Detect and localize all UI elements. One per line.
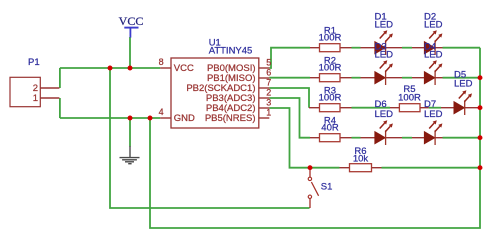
wire VCC symbol drop <box>129 37 131 68</box>
svg-text:LED: LED <box>375 49 394 60</box>
svg-text:VCC: VCC <box>174 63 194 74</box>
resistor R1 <box>319 25 342 51</box>
connector P1 <box>10 57 59 107</box>
junction VCC-S1 <box>108 66 113 71</box>
svg-text:100R: 100R <box>319 63 342 74</box>
svg-text:2: 2 <box>266 88 271 98</box>
wire row2 net PB1 <box>269 77 480 79</box>
junction S1 top <box>308 165 313 170</box>
op-amp U1 ATTINY45 IC <box>159 37 272 128</box>
wire VCC to S1 drop <box>110 68 310 208</box>
resistor R3 <box>319 85 342 111</box>
junction row3 rail <box>478 105 483 110</box>
svg-text:LED: LED <box>424 19 443 30</box>
svg-text:10k: 10k <box>353 153 369 164</box>
wire VCC net top horizontal <box>60 67 160 69</box>
LED D7 <box>424 99 443 145</box>
svg-text:4: 4 <box>159 107 164 117</box>
wire P1 pin1 riser <box>59 98 61 118</box>
svg-text:GND: GND <box>174 113 195 124</box>
LED D3 <box>375 41 394 85</box>
svg-text:100R: 100R <box>398 93 421 104</box>
VCC symbol <box>119 14 144 38</box>
svg-text:3: 3 <box>266 98 271 108</box>
svg-text:100R: 100R <box>319 33 342 44</box>
svg-text:LED: LED <box>424 49 443 60</box>
svg-text:ATTINY45: ATTINY45 <box>209 46 253 57</box>
switch S1 <box>308 168 332 208</box>
wire P1 pin2 riser <box>59 68 61 88</box>
svg-text:VCC: VCC <box>119 14 144 28</box>
svg-text:PB5(NRES): PB5(NRES) <box>205 113 256 124</box>
LED D6 <box>375 99 394 145</box>
svg-text:1: 1 <box>33 93 38 104</box>
junction ground symbol <box>128 116 133 121</box>
LED D1 <box>375 11 394 55</box>
svg-text:40R: 40R <box>321 123 339 134</box>
wire GND rail drop <box>150 48 480 228</box>
junction GND rail <box>148 116 153 121</box>
LED D4 <box>424 41 443 85</box>
wire row3 net PB2 <box>269 88 480 108</box>
svg-text:LED: LED <box>375 19 394 30</box>
LED D5 <box>454 70 473 115</box>
resistor R2 <box>319 55 342 81</box>
wire row1 net PB0 <box>269 48 480 68</box>
wire GND net bottom horizontal <box>60 117 160 119</box>
wire row5 net PB4 reset <box>269 108 480 168</box>
svg-text:LED: LED <box>375 109 394 120</box>
svg-text:8: 8 <box>159 57 164 67</box>
svg-text:6: 6 <box>266 68 271 78</box>
wire row4 net PB3 <box>269 98 480 138</box>
svg-text:5: 5 <box>266 58 271 68</box>
svg-text:1: 1 <box>266 108 271 118</box>
junction VCC symbol <box>128 66 133 71</box>
svg-text:7: 7 <box>266 78 271 88</box>
svg-text:S1: S1 <box>321 181 333 192</box>
junction row2 rail <box>478 75 483 80</box>
junction row5 rail <box>478 165 483 170</box>
ground <box>120 146 140 164</box>
wire ground symbol drop <box>129 118 131 147</box>
svg-text:P1: P1 <box>28 57 40 68</box>
svg-text:LED: LED <box>454 79 473 90</box>
resistor R4 <box>320 115 341 141</box>
resistor R6 <box>350 146 372 172</box>
LED D2 <box>424 11 443 55</box>
svg-text:100R: 100R <box>319 93 342 104</box>
svg-text:LED: LED <box>424 109 443 120</box>
resistor R5 <box>398 84 421 112</box>
junction row4 rail <box>478 135 483 140</box>
